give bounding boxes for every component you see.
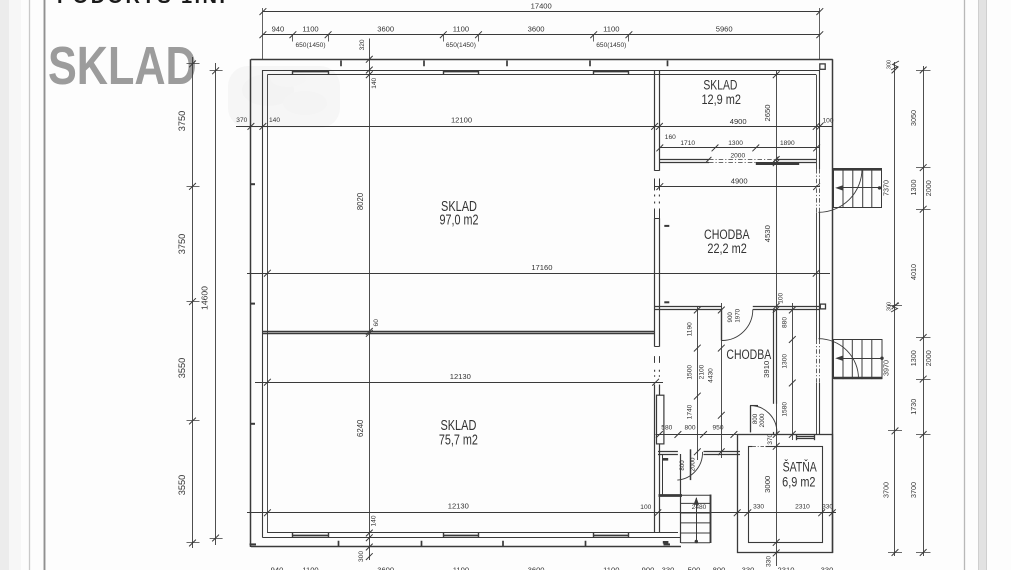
window top 3 (594, 71, 629, 73)
door arc to upper stair (819, 169, 863, 213)
exterior wall top inner face (263, 70, 820, 72)
dim 160/1710/1300/1890 line (660, 147, 820, 149)
svg-text:1300: 1300 (909, 350, 918, 366)
dim 580/800/950 line (656, 434, 738, 436)
door arc to lower stair (819, 339, 859, 379)
svg-text:3600: 3600 (528, 565, 545, 570)
svg-text:2650: 2650 (763, 104, 772, 121)
svg-text:1300: 1300 (781, 354, 788, 369)
svg-text:330: 330 (821, 565, 834, 570)
window top 1 (293, 71, 328, 73)
svg-text:100: 100 (777, 292, 784, 303)
wall mark left 1 (250, 183, 255, 185)
svg-text:8020: 8020 (356, 192, 365, 210)
svg-text:1730: 1730 (909, 399, 918, 415)
dim 17160 line (247, 273, 830, 275)
svg-text:3750: 3750 (177, 234, 187, 254)
left chain 14600 (215, 63, 217, 545)
svg-text:60: 60 (373, 319, 380, 327)
window bottom 3 (594, 535, 629, 537)
extension line right corner to dims (819, 8, 821, 59)
faint watermark smudge (228, 66, 340, 128)
left chain stubs (187, 64, 223, 543)
svg-text:ŠATŇA: ŠATŇA (783, 458, 818, 475)
svg-text:140: 140 (269, 117, 280, 124)
right chain 3050/1300/4010/1300/1730/3700 (923, 66, 925, 556)
svg-text:370: 370 (236, 117, 247, 124)
svg-text:12,9 m2: 12,9 m2 (701, 92, 741, 107)
exterior wall right inner face with door gaps (819, 70, 821, 169)
window bottom 2 (443, 535, 478, 537)
svg-text:6,9 m2: 6,9 m2 (782, 474, 815, 490)
svg-text:800: 800 (752, 413, 759, 424)
corner mark bottom left (250, 543, 257, 545)
svg-text:5960: 5960 (716, 24, 733, 33)
axis ticks top wall (341, 61, 668, 67)
svg-text:3750: 3750 (177, 111, 187, 131)
svg-text:17400: 17400 (531, 2, 552, 11)
wall below SKLAD 12,9 line2 (659, 162, 709, 164)
door opening dashes right wall upper (816, 169, 818, 213)
satna outer walls (738, 435, 833, 553)
corner mark bottom mid (664, 543, 671, 545)
svg-text:2480: 2480 (692, 504, 707, 511)
svg-text:3910: 3910 (762, 361, 771, 378)
svg-text:2100: 2100 (699, 364, 706, 379)
svg-text:1100: 1100 (453, 565, 469, 570)
svg-text:1500: 1500 (687, 365, 694, 380)
svg-text:100: 100 (640, 504, 651, 511)
wall mark interior 1 (664, 225, 669, 227)
svg-text:1710: 1710 (680, 140, 695, 147)
svg-text:940: 940 (271, 565, 284, 570)
svg-text:500: 500 (688, 565, 701, 570)
svg-text:17160: 17160 (531, 263, 552, 272)
exterior wall top finish line (267, 74, 816, 76)
svg-text:3600: 3600 (377, 565, 394, 570)
svg-text:12130: 12130 (450, 372, 471, 381)
svg-text:650(1450): 650(1450) (446, 42, 476, 49)
lower horizontal wall line1 (658, 451, 678, 453)
dim 370/140/12100/4900/100 line (236, 126, 833, 128)
svg-text:330: 330 (742, 565, 755, 570)
interior wall vertical main left line (654, 71, 656, 171)
exterior wall bottom finish line (267, 532, 678, 534)
svg-text:14600: 14600 (200, 286, 210, 310)
svg-text:300: 300 (886, 302, 892, 311)
chain 1190/1500/1740 (697, 306, 699, 460)
door opening frame stubs lower (654, 356, 656, 363)
svg-text:2000: 2000 (924, 180, 933, 196)
svg-text:7370: 7370 (881, 180, 890, 196)
wall below CHODBA 22,2 line1 (655, 306, 722, 308)
svg-text:900: 900 (727, 312, 734, 323)
interior stair bottom (681, 495, 710, 542)
svg-text:SKLAD: SKLAD (703, 77, 737, 93)
svg-text:22,2 m2: 22,2 m2 (707, 241, 746, 257)
svg-text:97,0 m2: 97,0 m2 (440, 211, 479, 228)
stair landing edge thick (659, 494, 683, 497)
chain 2100 4430 (721, 303, 723, 458)
svg-text:1300: 1300 (909, 180, 918, 196)
svg-text:1190: 1190 (687, 322, 694, 337)
svg-text:330: 330 (753, 504, 764, 511)
svg-text:1100: 1100 (603, 565, 619, 570)
door opening frame stubs upper (654, 179, 656, 191)
wall below SKLAD 12,9 line1 (659, 159, 709, 161)
svg-text:370: 370 (767, 433, 774, 444)
svg-text:880: 880 (781, 317, 788, 328)
sliding door leaf bar (756, 162, 799, 165)
exterior stair lower right (834, 340, 883, 380)
dim row 940/1100/3600/1100/3600/1100/5960 (263, 34, 820, 36)
stair upper arrow (838, 187, 880, 189)
page fold line right (964, 0, 966, 570)
right chain stubs (888, 71, 931, 553)
exterior wall left inner face (262, 70, 264, 538)
wall mark interior 2 (664, 301, 669, 303)
door opening dashes right wall lower (816, 340, 818, 384)
svg-text:2000: 2000 (924, 350, 933, 366)
svg-text:1580: 1580 (781, 402, 788, 417)
svg-text:3700: 3700 (881, 482, 890, 498)
thin wall between SKLAD rooms (263, 331, 655, 333)
wall mark left 2 (250, 303, 255, 305)
svg-text:300: 300 (358, 551, 365, 562)
squiggle 300 mid (891, 303, 899, 312)
lower horizontal wall line2 (658, 454, 678, 456)
exterior wall bottom outer (251, 546, 681, 548)
svg-text:300: 300 (886, 60, 892, 69)
exterior stair upper right (834, 168, 882, 207)
svg-text:2310: 2310 (778, 565, 795, 570)
svg-text:1740: 1740 (687, 404, 694, 419)
svg-text:140: 140 (371, 77, 378, 88)
svg-text:800: 800 (713, 565, 726, 570)
left chain 3750x2 3550x2 (192, 57, 194, 548)
svg-text:SKLAD: SKLAD (48, 37, 197, 97)
svg-text:3600: 3600 (528, 24, 545, 33)
chain 880/1300/1580 (792, 303, 794, 440)
extension line left corner to dims (262, 8, 264, 59)
exterior wall left finish line (267, 75, 269, 533)
lower vertical wall line2 (776, 310, 778, 404)
svg-text:320: 320 (359, 39, 366, 50)
dim 4900 line lower (655, 186, 820, 188)
svg-text:3000: 3000 (763, 476, 772, 493)
svg-text:580: 580 (661, 425, 672, 432)
exterior wall bottom inner face (263, 537, 681, 539)
page fold line left 2 (44, 0, 46, 570)
squiggle 300 top (891, 61, 899, 70)
svg-text:950: 950 (712, 425, 723, 432)
svg-text:1100: 1100 (453, 24, 469, 33)
svg-text:800: 800 (684, 425, 695, 432)
svg-text:140: 140 (371, 515, 378, 526)
satna inner walls (749, 447, 823, 543)
stair lower arrow (838, 358, 882, 360)
wall below CHODBA 22,2 line2 (655, 309, 722, 311)
vertical dim line 2650/4530/100/3910/370/3000/330 (776, 71, 778, 567)
satna top wall door dashes (752, 445, 765, 448)
svg-text:2000: 2000 (690, 457, 697, 471)
page fold line left 1 (29, 0, 31, 570)
svg-text:75,7 m2: 75,7 m2 (439, 431, 478, 448)
window bottom 1 (293, 535, 328, 537)
sill mark room A (663, 458, 668, 461)
lower vertical wall line1 (773, 310, 775, 404)
dim 12130/100/2480/330/2310/330 line (247, 512, 836, 514)
svg-text:3600: 3600 (377, 24, 394, 33)
exterior wall top outer (251, 59, 833, 61)
svg-text:940: 940 (272, 24, 285, 33)
axis ticks bottom wall (339, 541, 586, 547)
exterior wall right outer (832, 59, 834, 553)
svg-text:3970: 3970 (881, 360, 890, 376)
svg-text:2310: 2310 (795, 504, 810, 511)
svg-text:1970: 1970 (734, 308, 741, 322)
satna window in top wall (797, 436, 814, 438)
svg-text:650(1450): 650(1450) (295, 42, 325, 49)
door leaf and arc corridor top (721, 310, 723, 341)
door leaf and arc in lower vertical wall (750, 406, 752, 433)
interior wall vertical main right line (659, 71, 661, 171)
stair shaft right wall (710, 495, 712, 544)
door opening dots upper (655, 195, 660, 204)
svg-text:PÔDORYS 1.NP: PÔDORYS 1.NP (57, 0, 235, 8)
interior stair arrow (696, 498, 698, 542)
page left grey band (0, 0, 9, 570)
svg-text:100: 100 (822, 118, 833, 125)
svg-text:3550: 3550 (177, 475, 187, 495)
dim 12130 line (255, 382, 663, 384)
svg-text:6240: 6240 (356, 419, 365, 437)
svg-text:CHODBA: CHODBA (726, 346, 772, 362)
svg-text:1100: 1100 (302, 24, 318, 33)
sliding door opening dashes (709, 159, 776, 161)
sill mark below room A (663, 541, 669, 544)
exterior wall right finish line with door gaps (816, 75, 818, 169)
svg-text:330: 330 (822, 504, 833, 511)
right chain 7370/3970/3700 (894, 62, 896, 556)
svg-text:3050: 3050 (909, 110, 918, 126)
page right grey band (979, 0, 987, 570)
svg-text:160: 160 (665, 134, 676, 141)
svg-text:650(1450): 650(1450) (596, 42, 626, 49)
svg-text:2000: 2000 (759, 413, 766, 427)
roof drain square mid right (820, 304, 825, 309)
svg-text:12100: 12100 (451, 116, 472, 125)
vertical dim line 320/140/8020/60/6240/140/300 (369, 39, 371, 561)
svg-text:12130: 12130 (448, 502, 469, 511)
svg-text:1890: 1890 (780, 140, 795, 147)
svg-text:4010: 4010 (909, 264, 918, 280)
svg-text:800: 800 (679, 460, 686, 471)
svg-text:1100: 1100 (302, 565, 318, 570)
svg-text:4530: 4530 (763, 225, 772, 242)
svg-text:4900: 4900 (731, 176, 748, 185)
exterior wall left outer (250, 59, 252, 547)
wall mark left 3 (250, 423, 255, 425)
door opening dots lower (655, 370, 660, 377)
svg-text:1100: 1100 (603, 24, 619, 33)
svg-text:330: 330 (766, 556, 773, 567)
svg-text:3700: 3700 (909, 482, 918, 498)
room A left finish line (662, 455, 664, 495)
svg-text:4430: 4430 (708, 368, 715, 383)
stair shaft left wall (680, 454, 682, 543)
sliding door leaf rectangle on main wall (657, 395, 664, 444)
svg-text:3550: 3550 (177, 358, 187, 378)
svg-text:330: 330 (662, 565, 675, 570)
door leaf and arc lower horizontal wall (690, 449, 692, 480)
svg-text:1300: 1300 (728, 140, 743, 147)
svg-text:900: 900 (642, 565, 655, 570)
svg-text:2000: 2000 (730, 152, 745, 159)
window top 2 (443, 71, 478, 73)
roof drain square top right (820, 64, 825, 69)
svg-text:4900: 4900 (730, 117, 747, 126)
dim row 17400 (263, 11, 820, 13)
